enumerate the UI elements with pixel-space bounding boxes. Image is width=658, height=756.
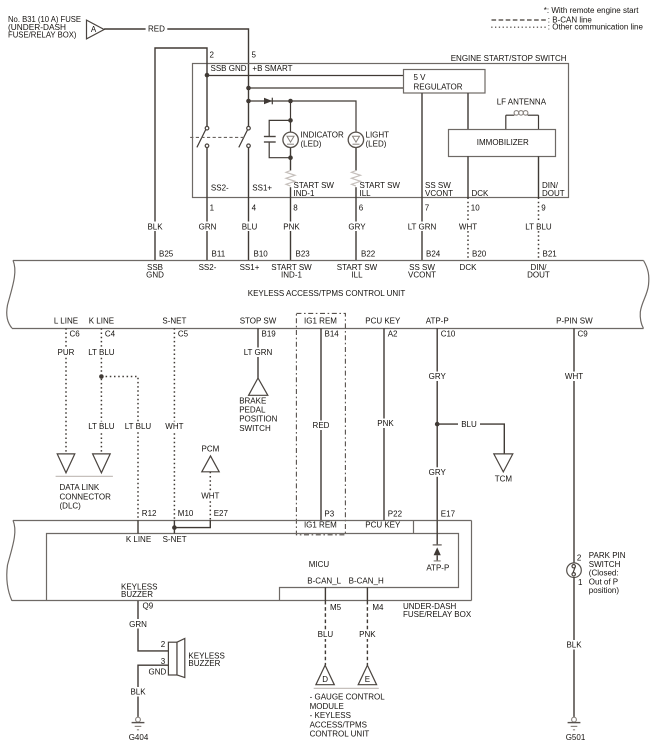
- LED light (LIGHT): [348, 130, 389, 170]
- node PCU KEY at MICU: [365, 510, 402, 530]
- park pin switch: [567, 551, 626, 595]
- wire PNK B23: [290, 198, 292, 261]
- svg-text:LT BLU: LT BLU: [125, 422, 152, 431]
- svg-text:P3: P3: [324, 510, 334, 519]
- svg-text:DOUT: DOUT: [542, 189, 565, 198]
- svg-text:PUR: PUR: [58, 348, 75, 357]
- svg-text:ACCESS/TPMS: ACCESS/TPMS: [310, 720, 367, 729]
- wire immobilizer to DCK: [467, 156, 469, 197]
- labels under-dash band: [330, 602, 472, 619]
- wire IG1 REM RED: [310, 328, 332, 520]
- switch SS1+ (right half): [239, 126, 251, 197]
- legend: B-CAN line sample: [492, 16, 593, 25]
- switch SS2- (left half): [197, 75, 209, 197]
- svg-text:IMMOBILIZER: IMMOBILIZER: [477, 138, 529, 147]
- svg-text:PCU KEY: PCU KEY: [365, 316, 401, 325]
- pin numbers below switch box: [210, 203, 547, 212]
- svg-text:+B SMART: +B SMART: [252, 64, 292, 73]
- svg-text:S-NET: S-NET: [162, 316, 186, 325]
- svg-text:LF ANTENNA: LF ANTENNA: [497, 97, 547, 106]
- svg-text:: Other communication line: : Other communication line: [548, 23, 644, 32]
- svg-text:BRAKE: BRAKE: [239, 396, 266, 405]
- svg-text:E17: E17: [441, 510, 456, 519]
- svg-text:Out of P: Out of P: [589, 577, 618, 586]
- svg-text:CONNECTOR: CONNECTOR: [60, 492, 112, 501]
- svg-text:PNK: PNK: [283, 222, 300, 231]
- wire immobilizer to DIN/DOUT: [538, 156, 540, 197]
- immobilizer U2: [449, 130, 556, 157]
- svg-text:E: E: [365, 675, 370, 684]
- svg-text:7: 7: [425, 203, 430, 212]
- ground G404: [129, 717, 149, 742]
- svg-text:K LINE: K LINE: [126, 535, 151, 544]
- svg-text:MICU: MICU: [309, 560, 330, 569]
- svg-text:CONTROL UNIT: CONTROL UNIT: [310, 730, 370, 739]
- wire park pin switch BLK to ground: [563, 577, 586, 717]
- svg-text:BLK: BLK: [130, 688, 146, 697]
- svg-text:VCONT: VCONT: [408, 270, 436, 279]
- wire regulator to immobilizer: [467, 93, 469, 129]
- svg-text:P22: P22: [388, 510, 403, 519]
- svg-text:B21: B21: [543, 250, 558, 259]
- svg-text:PCU KEY: PCU KEY: [365, 521, 401, 530]
- svg-text:2: 2: [210, 50, 215, 59]
- svg-text:2: 2: [577, 554, 582, 563]
- svg-text:ILL: ILL: [360, 189, 372, 198]
- resistor (START SW ILL): [352, 171, 361, 198]
- svg-text:(Closed:: (Closed:: [589, 569, 619, 578]
- dash-dot box IG1 REM (remote engine start): [296, 313, 345, 534]
- svg-text:POSITION: POSITION: [239, 415, 277, 424]
- connector pin labels above control unit: [159, 250, 557, 259]
- svg-text:SS2-: SS2-: [211, 184, 229, 193]
- svg-text:LIGHT: LIGHT: [366, 130, 390, 139]
- LF antenna coil L1: [497, 97, 547, 129]
- engine start/stop switch box: [193, 54, 569, 198]
- svg-text:INDICATOR: INDICATOR: [301, 130, 344, 139]
- svg-text:position): position): [589, 586, 620, 595]
- connector A (fuse feed triangle): [87, 20, 105, 39]
- wire K LINE branch to MICU dotted: [99, 374, 152, 520]
- svg-text:A: A: [91, 25, 97, 34]
- svg-text:DCK: DCK: [460, 263, 478, 272]
- svg-text:GRN: GRN: [129, 620, 147, 629]
- wire P-PIN SW WHT: [563, 328, 586, 563]
- svg-text:Q9: Q9: [143, 602, 154, 611]
- svg-text:G501: G501: [566, 733, 586, 742]
- connector TCM triangle: [494, 454, 513, 484]
- svg-text:4: 4: [252, 203, 257, 212]
- svg-text:SWITCH: SWITCH: [589, 560, 621, 569]
- svg-text:BLK: BLK: [147, 222, 163, 231]
- svg-text:ENGINE START/STOP SWITCH: ENGINE START/STOP SWITCH: [451, 54, 567, 63]
- svg-text:GRN: GRN: [199, 222, 217, 231]
- svg-text:PEDAL: PEDAL: [239, 406, 266, 415]
- node SSB GND header: [205, 64, 404, 77]
- svg-text:BUZZER: BUZZER: [188, 659, 220, 668]
- svg-text:LT BLU: LT BLU: [525, 222, 552, 231]
- svg-text:5 V: 5 V: [414, 73, 427, 82]
- wire diode feed line: [246, 99, 356, 132]
- wire E17 ATP-P with diode: [426, 510, 455, 573]
- svg-text:FUSE/RELAY BOX): FUSE/RELAY BOX): [8, 31, 77, 40]
- svg-text:LT BLU: LT BLU: [88, 422, 115, 431]
- connector D triangle (gauge control module): [316, 665, 334, 684]
- svg-text:D: D: [322, 675, 328, 684]
- svg-text:5: 5: [252, 50, 257, 59]
- connector E triangle (keyless unit): [358, 665, 376, 684]
- svg-text:BLK: BLK: [566, 641, 582, 650]
- svg-text:L LINE: L LINE: [54, 316, 78, 325]
- resistor (START SW IND-1): [286, 171, 295, 198]
- wire +B SMART to regulator: [246, 86, 403, 91]
- svg-text:KEYLESS ACCESS/TPMS CONTROL UN: KEYLESS ACCESS/TPMS CONTROL UNIT: [248, 289, 406, 298]
- svg-text:DCK: DCK: [472, 189, 490, 198]
- svg-text:10: 10: [471, 203, 480, 212]
- wire B-CAN_H PNK dashed: [357, 601, 379, 665]
- svg-text:WHT: WHT: [165, 422, 183, 431]
- connector DLC triangles: [56, 454, 113, 511]
- svg-text:B10: B10: [254, 250, 269, 259]
- wire GRY B22: [355, 198, 357, 261]
- svg-text:1: 1: [210, 203, 215, 212]
- svg-text:C6: C6: [70, 330, 81, 339]
- svg-text:PARK PIN: PARK PIN: [589, 551, 626, 560]
- svg-text:RED: RED: [148, 24, 165, 33]
- svg-text:1: 1: [578, 578, 583, 587]
- svg-text:SS1+: SS1+: [240, 263, 260, 272]
- MICU box: [47, 520, 459, 600]
- svg-text:C5: C5: [178, 330, 189, 339]
- svg-text:ATP-P: ATP-P: [426, 564, 449, 573]
- control unit top-row node names: [146, 263, 550, 280]
- pin row labels inside switch box: [211, 181, 565, 198]
- svg-text:(DLC): (DLC): [60, 502, 82, 511]
- node IG1 REM at MICU: [304, 510, 337, 530]
- LED indicator (INDICATOR): [283, 130, 344, 170]
- node B-CAN_L: [307, 577, 341, 601]
- svg-text:2: 2: [161, 640, 166, 649]
- svg-text:IND-1: IND-1: [294, 189, 315, 198]
- svg-text:BLU: BLU: [461, 420, 477, 429]
- svg-text:MODULE: MODULE: [310, 702, 344, 711]
- svg-text:S-NET: S-NET: [163, 535, 187, 544]
- brake pedal position switch connector triangle: [239, 378, 277, 433]
- svg-text:WHT: WHT: [201, 491, 219, 500]
- wire GRN B11: [206, 198, 208, 261]
- wire ATP-P GRY: [426, 328, 448, 520]
- svg-text:SS2-: SS2-: [199, 263, 217, 272]
- wire STOP SW LT GRN: [242, 328, 274, 378]
- svg-text:PCM: PCM: [202, 444, 220, 453]
- wire buzzer GND BLK: [127, 657, 169, 717]
- svg-text:BLU: BLU: [242, 222, 258, 231]
- svg-text:- GAUGE CONTROL: - GAUGE CONTROL: [310, 693, 386, 702]
- svg-text:E27: E27: [214, 509, 229, 518]
- svg-text:IND-1: IND-1: [281, 270, 302, 279]
- wire S-NET WHT dotted: [163, 328, 187, 520]
- connector pin labels below control unit: [70, 330, 589, 339]
- svg-text:G404: G404: [129, 733, 149, 742]
- svg-text:B20: B20: [472, 250, 487, 259]
- svg-text:P-PIN SW: P-PIN SW: [556, 316, 593, 325]
- svg-text:- KEYLESS: - KEYLESS: [310, 711, 351, 720]
- note: fuse source label: [8, 15, 81, 40]
- svg-text:DOUT: DOUT: [527, 270, 550, 279]
- svg-text:B11: B11: [212, 250, 226, 259]
- svg-text:B23: B23: [296, 250, 311, 259]
- svg-text:DATA LINK: DATA LINK: [60, 483, 100, 492]
- svg-text:8: 8: [293, 203, 298, 212]
- svg-text:WHT: WHT: [459, 222, 477, 231]
- svg-text:B19: B19: [262, 330, 277, 339]
- svg-text:(LED): (LED): [366, 140, 387, 149]
- svg-text:B-CAN_L: B-CAN_L: [307, 577, 341, 586]
- mechanical link (ganged switch dashes): [190, 136, 244, 138]
- wire K LINE LT BLU dotted: [87, 328, 116, 454]
- svg-text:LT GRN: LT GRN: [408, 222, 437, 231]
- svg-text:C9: C9: [578, 330, 589, 339]
- svg-text:R12: R12: [142, 509, 157, 518]
- svg-text:*: With remote engine start: *: With remote engine start: [544, 6, 639, 15]
- svg-text:ILL: ILL: [351, 270, 363, 279]
- capacitor C1: [264, 101, 293, 160]
- svg-text:TCM: TCM: [495, 475, 513, 484]
- wire E27 joins S-NET: [172, 509, 228, 530]
- svg-text:B-CAN_H: B-CAN_H: [349, 577, 384, 586]
- regulator U1 (5 V REGULATOR): [404, 70, 486, 94]
- keyless buzzer speaker: [168, 638, 224, 677]
- node B-CAN_H: [349, 577, 384, 601]
- svg-text:IG1 REM: IG1 REM: [304, 316, 337, 325]
- svg-text:GND: GND: [149, 668, 167, 677]
- svg-text:B22: B22: [361, 250, 376, 259]
- svg-text:3: 3: [161, 657, 166, 666]
- svg-text:9: 9: [541, 203, 546, 212]
- wire WHT DCK dotted: [467, 198, 469, 261]
- wire S-NET into MICU: [163, 509, 194, 544]
- node KEYLESS BUZZER at MICU: [121, 582, 157, 610]
- svg-text:STOP SW: STOP SW: [240, 316, 277, 325]
- svg-text:PNK: PNK: [377, 419, 394, 428]
- control unit bottom-row node names: [54, 316, 593, 325]
- wire PCU KEY PNK: [375, 328, 397, 520]
- svg-text:GND: GND: [146, 270, 164, 279]
- svg-text:SSB GND: SSB GND: [211, 64, 247, 73]
- svg-text:(LED): (LED): [301, 140, 322, 149]
- wire K LINE into MICU: [126, 509, 157, 544]
- svg-text:A2: A2: [388, 330, 398, 339]
- svg-text:B24: B24: [426, 250, 441, 259]
- gauge module group note: [310, 688, 386, 738]
- legend: other communication line sample: [491, 23, 643, 32]
- diode D1 (indicator feed): [264, 98, 272, 105]
- wire keyless buzzer GRN: [127, 601, 169, 651]
- svg-text:6: 6: [359, 203, 364, 212]
- svg-text:BLU: BLU: [318, 630, 334, 639]
- wire SSB GND top bracket (pin 2 feed): [155, 48, 257, 260]
- svg-text:M10: M10: [178, 509, 194, 518]
- svg-text:C4: C4: [105, 330, 116, 339]
- svg-text:FUSE/RELAY BOX: FUSE/RELAY BOX: [403, 610, 472, 619]
- svg-text:WHT: WHT: [565, 372, 583, 381]
- svg-text:LT GRN: LT GRN: [244, 348, 273, 357]
- svg-text:GRY: GRY: [429, 372, 447, 381]
- svg-text:M4: M4: [372, 603, 384, 612]
- svg-text:B14: B14: [325, 330, 340, 339]
- svg-text:GRY: GRY: [348, 222, 366, 231]
- ground G501: [566, 717, 586, 742]
- svg-text:M5: M5: [330, 603, 342, 612]
- wire BLU B10: [248, 198, 250, 261]
- keyless access/TPMS control unit band: [7, 260, 649, 328]
- wire RED from fuse to +B SMART: [104, 23, 248, 127]
- svg-text:VCONT: VCONT: [425, 189, 453, 198]
- svg-text:BUZZER: BUZZER: [121, 590, 153, 599]
- svg-text:GRY: GRY: [429, 468, 447, 477]
- wire regulator to SS SW VCONT: [421, 93, 423, 197]
- wire BLU branch to TCM: [435, 420, 504, 454]
- svg-text:REGULATOR: REGULATOR: [414, 82, 463, 91]
- wire color labels row: [144, 222, 553, 232]
- wire L LINE PUR dotted: [55, 328, 77, 454]
- svg-text:K LINE: K LINE: [89, 316, 114, 325]
- svg-text:C10: C10: [441, 330, 456, 339]
- svg-text:IG1 REM: IG1 REM: [304, 521, 337, 530]
- wire B-CAN_L BLU dashed: [315, 601, 337, 665]
- svg-text:ATP-P: ATP-P: [426, 316, 449, 325]
- wire LT GRN B24: [421, 198, 423, 261]
- under-dash fuse/relay box band: [7, 520, 472, 601]
- svg-text:LT BLU: LT BLU: [88, 348, 115, 357]
- svg-text:SS1+: SS1+: [252, 184, 272, 193]
- wire LT BLU DIN/DOUT dotted: [538, 198, 540, 261]
- svg-text:RED: RED: [313, 421, 330, 430]
- svg-text:PNK: PNK: [359, 630, 376, 639]
- connector PCM triangle: [199, 444, 223, 520]
- svg-text:B25: B25: [159, 250, 174, 259]
- svg-text:SWITCH: SWITCH: [239, 424, 271, 433]
